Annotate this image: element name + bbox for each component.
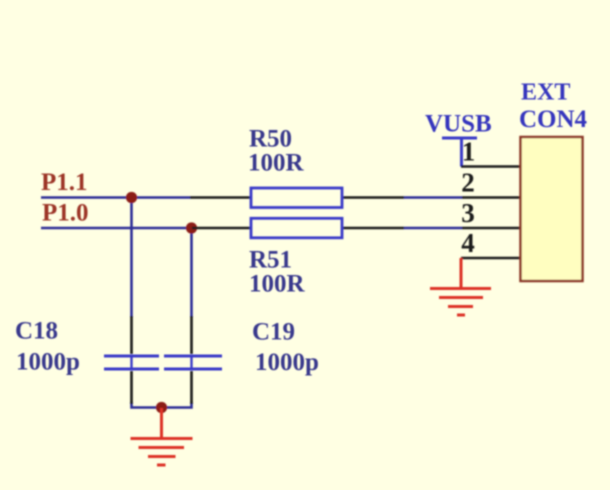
svg-text:C19: C19 (252, 319, 295, 346)
ground symbol at pin 4 (430, 258, 491, 315)
resistor R51 pin right (342, 227, 404, 230)
capacitor C18 pin top (130, 316, 133, 354)
svg-text:R50: R50 (249, 126, 292, 153)
resistor R50 pin right (342, 196, 404, 199)
capacitor C18 plates (104, 356, 159, 369)
connector U1 pin 1 line (461, 165, 521, 168)
svg-text:R51: R51 (249, 247, 292, 274)
svg-text:CON4: CON4 (519, 106, 588, 133)
wire R51 right to pin 3 (blue) (404, 227, 462, 230)
svg-text:EXT: EXT (521, 80, 570, 106)
capacitor C19 pin top (190, 316, 193, 354)
wire vertical from node B down to C19 (190, 228, 193, 317)
wire R50 right to pin 2 (blue) (404, 196, 462, 199)
svg-text:2: 2 (461, 168, 475, 198)
svg-text:C18: C18 (15, 318, 58, 345)
ground node junction dot (156, 402, 167, 413)
wire P1.1 horizontal left (blue) (41, 196, 190, 199)
capacitor C18 pin bottom (130, 371, 133, 404)
svg-text:100R: 100R (249, 271, 306, 298)
resistor R51 pin left (192, 227, 251, 230)
power port VUSB bar symbol (442, 137, 477, 140)
wire below capacitors joining C18 and C19 (blue) (132, 402, 192, 408)
svg-text:4: 4 (461, 228, 475, 258)
svg-text:1000p: 1000p (16, 349, 80, 376)
svg-text:1: 1 (462, 137, 476, 167)
capacitor C19 plates (164, 356, 222, 369)
wire vertical from node A down to C18 (130, 198, 133, 318)
svg-text:P1.0: P1.0 (42, 200, 89, 227)
connector U1 pin 4 line (461, 257, 521, 260)
connector U1 pin 3 line (462, 227, 521, 230)
power port VUSB stem (460, 138, 463, 167)
connector CON4 body (521, 137, 583, 281)
connector U1 pin 2 line (462, 196, 521, 199)
capacitor C19 pin bottom (190, 371, 193, 404)
svg-text:100R: 100R (248, 150, 305, 177)
svg-text:1000p: 1000p (255, 349, 319, 376)
resistor R51 body (251, 218, 342, 238)
svg-text:3: 3 (461, 198, 475, 228)
wire P1.0 horizontal left (blue) (41, 227, 193, 230)
resistor R50 body (251, 188, 342, 208)
ground symbol below capacitors (131, 408, 193, 465)
node A junction dot (126, 192, 137, 203)
svg-text:P1.1: P1.1 (41, 169, 88, 196)
node B junction dot (186, 222, 197, 233)
resistor R50 pin left (190, 196, 251, 199)
svg-text:VUSB: VUSB (425, 111, 492, 138)
